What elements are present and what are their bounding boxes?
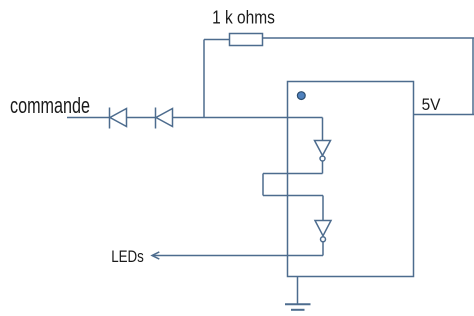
wire: inverter 2 input vertical — [322, 196, 324, 221]
svg-text:commande: commande — [10, 95, 90, 119]
wire: inverter 1 input vertical — [322, 118, 324, 141]
wire: 5V rail horizontal from IC right edge to right edge — [414, 114, 474, 116]
wire: vertical from resistor node down to commande line — [203, 40, 205, 118]
wire: horizontal jog left from inverter 1 output — [263, 173, 323, 175]
wire: LEDs output line with left arrowhead — [152, 252, 323, 259]
wire: commande input lead (left stub to diode D1) — [67, 117, 110, 119]
IC U1 (buffer box outline) — [288, 82, 414, 277]
wire: between diode D1 and diode D2 — [127, 117, 156, 119]
wire: from diode D2 into IC to inverter 1 input — [173, 117, 323, 119]
diode D2 (cathode bar + left-pointing triangle) — [156, 108, 173, 129]
inverter gate 2 (down-pointing triangle with bubble) — [315, 221, 331, 242]
wire: horizontal from resistor right lead to top-right corner — [263, 37, 474, 39]
wire: horizontal from top-left corner node to resistor left lead — [204, 39, 230, 41]
wire: inverter 1 output down — [322, 161, 324, 173]
wire: vertical jog on left of box — [262, 174, 264, 196]
wire: inverter 2 output down to LEDs line — [322, 242, 324, 255]
wire: right edge vertical joining top wire to 5V rail — [472, 38, 474, 115]
diode D1 (cathode bar + left-pointing triangle) — [110, 108, 127, 129]
wire: horizontal jog right to inverter 2 input — [263, 195, 323, 197]
svg-text:1 k ohms: 1 k ohms — [212, 7, 275, 28]
svg-text:5V: 5V — [422, 96, 441, 115]
resistor 1k (rectangle body) — [230, 34, 263, 46]
svg-text:LEDs: LEDs — [111, 247, 144, 266]
inverter gate 1 (down-pointing triangle with bubble) — [315, 141, 331, 162]
pin-1 marker dot — [297, 92, 305, 100]
ground (stem + two bars) — [285, 277, 311, 310]
